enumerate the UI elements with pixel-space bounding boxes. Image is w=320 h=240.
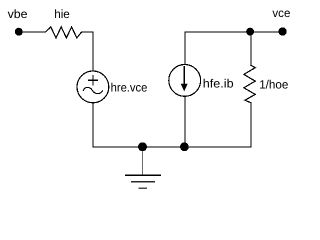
svg-text:1/hoe: 1/hoe bbox=[259, 78, 289, 92]
svg-text:hie: hie bbox=[54, 7, 70, 21]
svg-text:hfe.ib: hfe.ib bbox=[203, 77, 234, 91]
svg-text:hre.vce: hre.vce bbox=[111, 80, 148, 94]
svg-text:vbe: vbe bbox=[8, 7, 28, 21]
svg-text:vce: vce bbox=[272, 6, 290, 20]
